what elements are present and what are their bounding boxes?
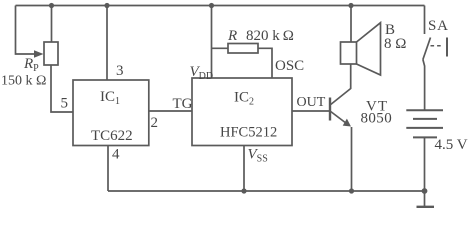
wire IC1 pin 3 bbox=[106, 6, 108, 81]
svg-text:SA: SA bbox=[428, 18, 449, 34]
svg-text:RP: RP bbox=[23, 56, 39, 74]
svg-text:5: 5 bbox=[61, 96, 69, 112]
wire speaker top bbox=[350, 6, 352, 43]
svg-text:8050: 8050 bbox=[361, 111, 393, 127]
switch SA pushbutton link bbox=[431, 38, 448, 57]
node junction top rail at VDD bbox=[209, 3, 214, 8]
node junction top rail at pin3 bbox=[104, 3, 109, 8]
svg-text:150 k Ω: 150 k Ω bbox=[1, 74, 46, 89]
transistor Q1 emitter bbox=[331, 112, 347, 124]
node junction bottom rail at battery bbox=[422, 188, 428, 194]
IC U2 box (HFC5212) bbox=[192, 78, 292, 146]
wire IC1 pin 2 to IC2 TG bbox=[149, 110, 192, 112]
svg-text:4.5 V: 4.5 V bbox=[435, 137, 468, 153]
svg-text:2: 2 bbox=[151, 115, 159, 131]
wire IC2 OUT to VT base bbox=[292, 110, 330, 112]
svg-text:VSS: VSS bbox=[248, 147, 268, 165]
wire SA top lead bbox=[424, 6, 426, 35]
ground bar bbox=[417, 206, 435, 208]
wire RP top bbox=[51, 6, 53, 43]
wire IC1 pin 4 to bottom rail bbox=[107, 146, 109, 192]
svg-text:HFC5212: HFC5212 bbox=[220, 125, 277, 141]
transistor Q1 emitter arrowhead bbox=[343, 119, 351, 127]
IC U1 box (TC622) bbox=[73, 80, 149, 146]
switch SA blade bbox=[423, 38, 431, 60]
node junction bottom rail at VSS bbox=[241, 188, 246, 193]
wire SA bottom lead to battery bbox=[423, 60, 425, 111]
svg-text:TC622: TC622 bbox=[91, 128, 133, 144]
svg-text:820 k Ω: 820 k Ω bbox=[246, 28, 294, 44]
wire left vertical to RP wiper bbox=[16, 6, 36, 55]
svg-text:3: 3 bbox=[116, 63, 124, 79]
node junction bottom rail at emitter bbox=[349, 188, 354, 193]
wire IC2 VDD bbox=[211, 6, 213, 79]
wire top supply rail bbox=[16, 5, 425, 7]
node junction top rail at speaker bbox=[348, 3, 353, 8]
node junction top rail at RP bbox=[49, 3, 54, 8]
wire R right lead to OSC bbox=[258, 48, 272, 78]
svg-text:8 Ω: 8 Ω bbox=[384, 36, 406, 52]
potentiometer RP body bbox=[44, 42, 58, 65]
svg-text:OUT: OUT bbox=[297, 95, 326, 110]
svg-text:TG: TG bbox=[173, 96, 193, 112]
wire VT emitter to bottom rail bbox=[351, 127, 353, 191]
potentiometer RP wiper arrowhead bbox=[34, 50, 44, 58]
svg-text:VDD: VDD bbox=[190, 64, 214, 82]
wire R left lead bbox=[212, 47, 229, 49]
wire IC2 VSS to bottom rail bbox=[243, 146, 245, 192]
resistor R body bbox=[228, 44, 258, 54]
battery GB plates bbox=[406, 110, 443, 137]
speaker B body bbox=[341, 23, 381, 75]
svg-text:4: 4 bbox=[112, 147, 120, 163]
wire bottom ground rail bbox=[108, 190, 425, 192]
transistor Q1 VT 8050 base bar bbox=[329, 98, 331, 121]
svg-text:OSC: OSC bbox=[275, 58, 304, 74]
wire battery negative to ground stub bbox=[424, 137, 426, 206]
svg-text:R: R bbox=[227, 28, 237, 44]
wire RP bottom to IC1 pin 5 bbox=[51, 65, 73, 112]
wire speaker bottom to VT collector bbox=[331, 64, 351, 105]
